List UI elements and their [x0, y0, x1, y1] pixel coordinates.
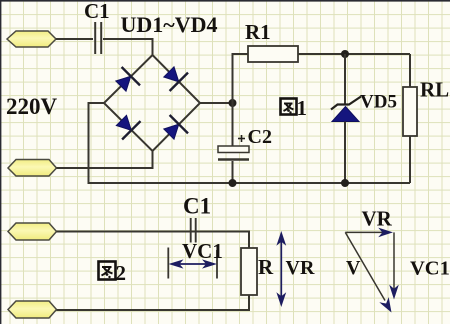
- svg-text:RL: RL: [420, 78, 449, 102]
- terminal T2 (220V input b): [8, 160, 57, 177]
- wire C1 to bridge top corner: [103, 39, 153, 55]
- bridge rectifier diamond: [104, 55, 200, 151]
- phasor VC1 vector: [389, 232, 399, 299]
- VC1 dimension right tick: [216, 250, 218, 279]
- wire R to bottom rail: [57, 295, 250, 310]
- svg-text:R1: R1: [245, 20, 271, 44]
- terminal T3 (fig2 input a): [8, 223, 57, 240]
- wire bridge bottom corner to T2: [57, 151, 153, 168]
- capacitor C1 (top): [95, 22, 101, 54]
- svg-text:UD1~VD4: UD1~VD4: [121, 12, 218, 37]
- svg-text:R: R: [258, 255, 274, 279]
- resistor R1: [248, 46, 298, 62]
- zener VD5 cathode bar: [331, 97, 361, 110]
- resistor RL: [403, 87, 417, 136]
- node junction dot above VD5: [341, 50, 349, 58]
- svg-text:C1: C1: [84, 0, 110, 23]
- wire VD5 to rail: [344, 122, 346, 184]
- label fig1 glyph 图: [281, 99, 297, 115]
- wire down to RL: [409, 54, 411, 87]
- C2 plus sign: [238, 135, 245, 142]
- phasor VR vector: [345, 228, 393, 238]
- svg-text:V: V: [346, 257, 361, 279]
- wire RL bottom to rail: [409, 136, 411, 183]
- wire node up to R1: [233, 54, 249, 103]
- VR arrow (fig2): [276, 231, 286, 307]
- svg-text:VD5: VD5: [360, 92, 397, 113]
- svg-text:VR: VR: [286, 257, 315, 279]
- capacitor C2 bottom plate: [218, 158, 249, 161]
- wire R1 to RL top: [298, 53, 410, 55]
- junction dot VD5/rail: [341, 179, 349, 187]
- node junction dot at bridge output: [229, 99, 237, 107]
- svg-text:VC1: VC1: [410, 258, 450, 280]
- resistor R (fig2): [241, 248, 257, 295]
- phasor V vector: [345, 232, 391, 312]
- wire bridge left corner to bottom rail: [89, 103, 411, 183]
- wire node down to C2: [232, 103, 234, 146]
- diode VD3 (lower-left arm): [116, 115, 140, 139]
- svg-text:C1: C1: [183, 194, 211, 219]
- VC1 dimension double arrow: [169, 259, 218, 268]
- terminal T4 (fig2 input b): [8, 301, 57, 318]
- svg-text:VR: VR: [362, 207, 393, 231]
- wire C2 to rail: [232, 161, 234, 183]
- terminal T1 (220V input a): [7, 31, 56, 47]
- diode VD2 (upper-right arm): [164, 67, 188, 91]
- svg-text:VC1: VC1: [182, 239, 223, 263]
- svg-text:2: 2: [116, 261, 127, 285]
- wire T3 through C1b to R: [57, 232, 250, 249]
- junction dot C2/rail: [229, 179, 237, 187]
- diode VD4 (lower-right arm): [164, 115, 188, 139]
- capacitor C2 top plate: [218, 146, 249, 153]
- capacitor C1 (fig2): [191, 218, 196, 243]
- svg-text:220V: 220V: [6, 94, 58, 119]
- zener VD5 anode triangle: [332, 107, 359, 122]
- label fig2 glyph 图: [99, 262, 116, 280]
- diode VD1 (upper-left arm): [116, 67, 140, 91]
- svg-text:1: 1: [297, 96, 308, 120]
- wire T1 to C1: [56, 38, 93, 40]
- wire node to zener VD5: [344, 54, 346, 104]
- VC1 dimension left tick: [167, 248, 169, 279]
- svg-text:C2: C2: [248, 126, 272, 148]
- wire bridge right corner to node: [200, 102, 233, 104]
- scan border top edge: [0, 0, 450, 2]
- scan border left edge: [0, 0, 1, 324]
